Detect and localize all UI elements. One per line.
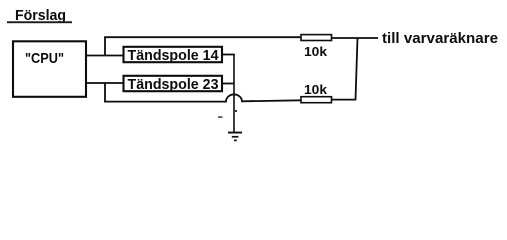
CPU block U1 <box>13 41 86 97</box>
svg-text:till varvaräknare: till varvaräknare <box>382 30 498 47</box>
svg-text:"CPU": "CPU" <box>25 50 64 67</box>
svg-text:Tändspole 14: Tändspole 14 <box>128 47 220 64</box>
wire top rail <box>104 36 302 38</box>
resistor R2 <box>301 97 332 103</box>
wire CPU pin2 to Tändspole 23 <box>86 82 124 84</box>
svg-text:10k: 10k <box>304 82 328 97</box>
title Förslag <box>7 7 72 24</box>
wire R1 output to tach <box>332 37 379 39</box>
wire bottom rail with hop over ground wire <box>104 94 301 101</box>
svg-text:10k: 10k <box>304 44 328 59</box>
wire CPU pin1 to Tändspole 14 <box>86 55 124 57</box>
ignition coil block Tändspole 23 <box>124 76 223 93</box>
wire branch down to bottom rail <box>104 83 106 103</box>
svg-text:Tändspole 23: Tändspole 23 <box>128 76 219 93</box>
ignition coil block Tändspole 14 <box>124 47 223 64</box>
resistor R1 <box>301 35 332 41</box>
wire down to ground <box>218 55 237 133</box>
wire Tändspole 23 output <box>223 83 235 85</box>
ground <box>228 132 242 142</box>
wire Tändspole 14 output <box>223 54 235 56</box>
wire branch up to top rail <box>104 37 106 57</box>
wire junction down to R2 right side <box>332 38 358 100</box>
